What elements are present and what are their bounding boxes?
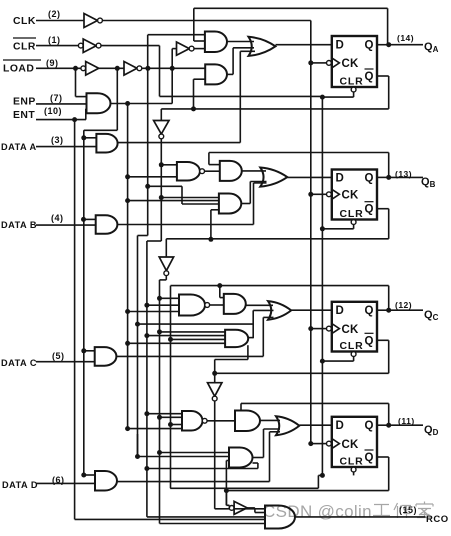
wire QA to AND B2 bbox=[161, 197, 219, 199]
NAND D output bubble bbox=[202, 418, 207, 423]
node LOAD junction bbox=[73, 66, 78, 71]
flip-flop U4 CK bubble bbox=[327, 441, 332, 446]
wire QC drop to AND C1 bbox=[220, 286, 224, 298]
wire QA to NAND C bbox=[147, 304, 179, 306]
wire CK tap U3 bbox=[311, 328, 327, 330]
node QB tap NAND D bbox=[157, 415, 162, 420]
wire AND D1 out bbox=[260, 419, 280, 421]
node QC junction bbox=[386, 308, 391, 313]
svg-text:(4): (4) bbox=[51, 213, 64, 223]
node load-true junction bbox=[115, 66, 120, 71]
svg-text:Q: Q bbox=[365, 172, 374, 184]
svg-text:Q: Q bbox=[365, 335, 374, 347]
svg-text:Q: Q bbox=[365, 71, 374, 83]
wire QA jog to AND D2 bbox=[147, 463, 258, 469]
flip-flop U1 Qbar label bbox=[365, 69, 374, 83]
node CLR junction U3 bbox=[320, 359, 325, 364]
flip-flop U3 CK label bbox=[342, 324, 360, 336]
node T tap AND C2 bbox=[125, 341, 130, 346]
wire QA-bar to AND A2 bbox=[194, 79, 206, 109]
wire CLR tap U4 bbox=[353, 472, 355, 475]
flip-flop U4 CLR label bbox=[340, 456, 364, 468]
wire OR C out to D3 bbox=[291, 309, 332, 311]
wire QB bus bbox=[160, 276, 266, 524]
node pin label (14) bbox=[397, 33, 414, 43]
wire QbarA out bbox=[377, 75, 389, 77]
wire QB-bar jog to inverter bbox=[165, 239, 167, 257]
AND gate T enable bbox=[87, 93, 111, 113]
wire CLR tap U1 bbox=[322, 92, 353, 97]
svg-text:(1): (1) bbox=[48, 35, 61, 45]
flip-flop U2 CK wedge bbox=[332, 189, 340, 199]
node CLR junction U1 bbox=[320, 95, 325, 100]
svg-text:RCO: RCO bbox=[426, 514, 449, 525]
wire DATA A pin bbox=[36, 146, 96, 148]
wire OR D out to D4 bbox=[299, 424, 332, 426]
flip-flop U1 CK bubble bbox=[327, 61, 332, 66]
svg-text:DATA D: DATA D bbox=[2, 480, 38, 490]
wire load-n riser to inverter A bbox=[171, 49, 173, 104]
node QA tap NAND D bbox=[144, 411, 149, 416]
wire CLK to CK bus bbox=[102, 20, 310, 22]
flip-flop U3 Q label bbox=[365, 305, 374, 317]
flip-flop U1 Q label bbox=[365, 40, 374, 52]
wire DATA B pin bbox=[36, 224, 96, 226]
svg-text:CLR: CLR bbox=[340, 208, 364, 220]
svg-text:DATA B: DATA B bbox=[1, 220, 37, 230]
wire QA to NAND B bbox=[161, 164, 177, 166]
node CK junction U1 bbox=[308, 60, 313, 65]
svg-text:CK: CK bbox=[342, 439, 360, 451]
inverter QA down bbox=[154, 121, 169, 135]
wire load-n jog to AND B2 bbox=[148, 186, 219, 204]
OR gate A bbox=[249, 37, 276, 56]
wire QB-bar riser to AND B2 bbox=[211, 210, 219, 240]
wire load-n bus bbox=[138, 35, 148, 457]
wire QC-bar line bbox=[215, 340, 389, 373]
flip-flop U1 CLR bubble bbox=[351, 87, 356, 92]
node pin label (13) bbox=[395, 169, 412, 179]
svg-text:CK: CK bbox=[342, 190, 360, 202]
node QB junction bbox=[386, 175, 391, 180]
svg-text:CLR: CLR bbox=[340, 76, 364, 88]
node data-enable tap A bbox=[81, 135, 86, 140]
svg-text:CK: CK bbox=[342, 324, 360, 336]
wire CLR tap U3 bbox=[322, 357, 353, 362]
node ENT junction bbox=[72, 117, 77, 122]
flip-flop U2 CK label bbox=[342, 190, 360, 202]
inverter CLR input bubble bbox=[78, 43, 83, 48]
wire CK tap U1 bbox=[311, 62, 327, 64]
wire data-enable to gate B bbox=[84, 218, 96, 220]
node QD-bar tap riser bbox=[224, 488, 229, 493]
inverter LOAD second bbox=[124, 62, 137, 76]
flip-flop U3 CLR label bbox=[340, 340, 364, 352]
node QA tap AND B2 bbox=[159, 195, 164, 200]
inverter QC down bubble bbox=[212, 396, 217, 401]
wire QD-bar riser bbox=[225, 461, 227, 506]
wire QA-bar line bbox=[161, 76, 388, 109]
node QA tap NAND B bbox=[159, 162, 164, 167]
flip-flop U3 D label bbox=[336, 305, 345, 317]
wire ENT bus bbox=[75, 120, 265, 520]
svg-text:D: D bbox=[336, 305, 345, 317]
flip-flop U3 CK bubble bbox=[327, 326, 332, 331]
flip-flop U2 box bbox=[332, 170, 377, 220]
AND gate RCO bbox=[265, 506, 295, 529]
svg-text:D: D bbox=[336, 172, 345, 184]
node QA tap AND C2 bbox=[144, 333, 149, 338]
wire T to NAND B bbox=[128, 176, 177, 178]
wire QA rail drop bbox=[194, 8, 205, 41]
svg-text:LOAD: LOAD bbox=[3, 64, 34, 75]
flip-flop U3 CK wedge bbox=[332, 324, 340, 334]
svg-text:(13): (13) bbox=[395, 169, 412, 179]
node QB tap AND C2 bbox=[157, 329, 162, 334]
wire T to AND B2 bbox=[128, 200, 219, 202]
inverter A output bubble bbox=[189, 46, 194, 51]
wire QB to pin bbox=[392, 176, 423, 178]
node QA tap NAND C bbox=[144, 303, 149, 308]
svg-text:(5): (5) bbox=[52, 351, 65, 361]
wire OR B out to D2 bbox=[287, 176, 332, 178]
wire ENT up into enable AND bbox=[86, 109, 87, 120]
wire AND A2 out jog bbox=[227, 48, 254, 75]
node DATA D label bbox=[2, 475, 65, 490]
wire QD feedback line bbox=[241, 403, 389, 425]
wire QD drop to AND D1 bbox=[241, 403, 242, 414]
node T junction bbox=[125, 101, 130, 106]
AND gate A2 bbox=[205, 64, 227, 84]
wire QC to AND C2 bbox=[171, 338, 226, 340]
wire CK tap U4 bbox=[311, 443, 327, 445]
svg-text:(3): (3) bbox=[51, 135, 64, 145]
wire T to NAND C bbox=[128, 311, 179, 313]
wire QC bus bbox=[215, 401, 266, 509]
NAND gate D bbox=[182, 411, 203, 431]
wire NAND D out bbox=[207, 420, 235, 422]
wire T to NAND D bbox=[128, 428, 182, 430]
wire QA to NAND D bbox=[147, 413, 182, 415]
inverter A bbox=[172, 42, 189, 55]
wire CK bus bbox=[310, 21, 312, 444]
inverter CLR bbox=[83, 39, 96, 53]
svg-text:Q: Q bbox=[365, 420, 374, 432]
node T tap NAND B bbox=[125, 174, 130, 179]
wire CLR bus bbox=[321, 96, 323, 475]
svg-text:CLR: CLR bbox=[13, 42, 36, 53]
AND gate C2 bbox=[225, 330, 248, 347]
node data-enable tap C bbox=[81, 348, 86, 353]
wire T bus bbox=[127, 104, 129, 429]
node QA label bbox=[424, 41, 439, 54]
node QA-bar junction bbox=[191, 106, 196, 111]
wire QC output bbox=[377, 309, 392, 311]
wire QA to AND C2 bbox=[147, 335, 225, 337]
wire CLK pin bbox=[36, 20, 84, 22]
wire data B out riser bbox=[117, 183, 266, 225]
wire QbarC out bbox=[377, 339, 389, 341]
node pin label (12) bbox=[395, 300, 412, 310]
svg-text:(2): (2) bbox=[48, 9, 61, 19]
node CK junction U2 bbox=[308, 192, 313, 197]
wire data D out riser bbox=[117, 432, 280, 482]
svg-text:CK: CK bbox=[342, 58, 360, 70]
node CLR input label bbox=[13, 35, 61, 53]
flip-flop U4 CK label bbox=[342, 439, 360, 451]
node QD label bbox=[424, 424, 439, 437]
node QC label bbox=[424, 309, 439, 322]
node load-n tap B bbox=[145, 184, 150, 189]
flip-flop U1 box bbox=[332, 36, 377, 87]
wire load-n line bbox=[142, 67, 205, 69]
flip-flop U2 D label bbox=[336, 172, 345, 184]
wire CLR tap U2 bbox=[322, 225, 353, 229]
node QA junction bbox=[386, 42, 391, 47]
wire DATA D pin bbox=[36, 482, 95, 484]
wire load-n to gate A1 bbox=[148, 34, 205, 36]
svg-text:Q: Q bbox=[365, 40, 374, 52]
svg-text:(10): (10) bbox=[44, 106, 62, 116]
wire data-enable to gate C bbox=[84, 350, 95, 352]
node CLR junction U2 bbox=[320, 226, 325, 231]
node QB tap NAND C bbox=[157, 296, 162, 301]
wire QB drop to AND B1 bbox=[209, 153, 220, 165]
wire T output bbox=[111, 103, 173, 105]
inverter LOAD second output bubble bbox=[137, 66, 142, 71]
wire QB to NAND C bbox=[160, 297, 180, 299]
svg-text:Q: Q bbox=[365, 204, 374, 216]
wire ENP pin bbox=[36, 103, 87, 105]
wire QD to pin bbox=[392, 424, 423, 426]
svg-text:(7): (7) bbox=[50, 93, 63, 103]
wire QC into NAND D bbox=[171, 424, 183, 426]
wire QA top rail bbox=[194, 8, 388, 44]
node ENP input label bbox=[13, 93, 63, 108]
flip-flop U2 CLR label bbox=[340, 208, 364, 220]
wire CLR to clear bus bbox=[101, 46, 322, 97]
node CK junction U4 bbox=[308, 441, 313, 446]
svg-text:ENT: ENT bbox=[13, 110, 35, 121]
wire QA output bbox=[377, 44, 392, 46]
flip-flop U4 box bbox=[332, 417, 377, 467]
wire QB-bar line bbox=[166, 209, 388, 239]
inverter CLK output bubble bbox=[98, 18, 103, 23]
AND gate data C bbox=[95, 347, 117, 366]
svg-text:Q: Q bbox=[365, 305, 374, 317]
wire CLR pin bbox=[36, 45, 79, 47]
wire AND D2 out jog bbox=[253, 429, 281, 458]
wire DATA C pin bbox=[36, 361, 95, 363]
buffer RCO input bubble bbox=[229, 506, 234, 511]
flip-flop U1 CLR label bbox=[340, 76, 364, 88]
OR gate D bbox=[276, 416, 299, 435]
AND gate data A bbox=[96, 134, 117, 153]
wire QD-bar line bbox=[226, 457, 388, 491]
wire QA-bar jog down bbox=[160, 109, 162, 121]
wire QD-bar riser top bbox=[226, 460, 229, 462]
wire NAND C out bbox=[210, 304, 224, 306]
node DATA B label bbox=[1, 213, 64, 230]
node bus2 tap AND D2 bbox=[135, 454, 140, 459]
inverter CLR output bubble bbox=[96, 43, 101, 48]
AND gate data D bbox=[95, 471, 117, 491]
node T tap NAND C bbox=[125, 309, 130, 314]
wire data C out riser bbox=[116, 317, 273, 356]
flip-flop U2 Q label bbox=[365, 172, 374, 184]
node load-n junction A bbox=[145, 66, 150, 71]
wire inverter A to AND A1 bbox=[194, 48, 205, 50]
flip-flop U4 D label bbox=[336, 420, 345, 432]
buffer LOAD bbox=[86, 62, 99, 76]
svg-text:D: D bbox=[336, 420, 345, 432]
node pin label (11) bbox=[398, 416, 415, 426]
flip-flop U4 Qbar label bbox=[365, 450, 374, 464]
svg-text:Q: Q bbox=[365, 452, 374, 464]
buffer RCO bbox=[234, 501, 247, 514]
svg-text:DATA C: DATA C bbox=[1, 358, 37, 368]
wire QA to pin bbox=[392, 44, 423, 46]
wire QB output bbox=[377, 176, 392, 178]
flip-flop U1 CK wedge bbox=[332, 58, 340, 68]
flip-flop U1 D label bbox=[336, 40, 345, 52]
wire QC-bar jog to inverter bbox=[214, 373, 216, 382]
wire LOAD buffer out bbox=[99, 67, 124, 69]
wire LOAD pin bbox=[36, 67, 81, 69]
flip-flop U2 CK bubble bbox=[327, 192, 332, 197]
AND gate D1 bbox=[235, 411, 260, 432]
wire QD output bbox=[377, 424, 392, 426]
svg-text:CLK: CLK bbox=[13, 16, 36, 27]
wire AND B2 out jog bbox=[241, 182, 266, 204]
wire AND C2 out jog bbox=[248, 310, 273, 338]
watermark text bbox=[263, 502, 372, 521]
wire RCO buffer out jog bbox=[247, 508, 265, 513]
wire CK tap U2 bbox=[311, 193, 327, 195]
node T tap NAND D bbox=[125, 426, 130, 431]
svg-text:CLR: CLR bbox=[340, 456, 364, 468]
node QD junction bbox=[386, 423, 391, 428]
node RCO pin label bbox=[399, 505, 417, 515]
node QB label bbox=[421, 176, 436, 189]
svg-text:DATA A: DATA A bbox=[1, 142, 37, 152]
svg-text:(9): (9) bbox=[46, 58, 59, 68]
node QB tap AND D2 bbox=[157, 450, 162, 455]
wire QC feedback line bbox=[171, 286, 389, 310]
node bus2 tap AND C2 bbox=[135, 322, 140, 327]
wire AND B1 out bbox=[242, 170, 266, 172]
buffer LOAD input bubble bbox=[81, 66, 86, 71]
wire QB to AND C2 bbox=[160, 331, 226, 333]
flip-flop U4 Q label bbox=[365, 420, 374, 432]
node QC junction drop bbox=[217, 283, 222, 288]
node DATA C label bbox=[1, 351, 65, 368]
NAND gate C bbox=[179, 295, 205, 316]
svg-text:D: D bbox=[336, 40, 345, 52]
wire QbarB out bbox=[377, 208, 389, 210]
node RCO label bbox=[426, 514, 449, 525]
wire QB to AND D2 bbox=[160, 452, 230, 454]
wire data-enable to gate A bbox=[84, 137, 97, 139]
inverter QB down bubble bbox=[164, 271, 169, 276]
node QC tap AND C2 bbox=[168, 337, 173, 342]
node CLK input label bbox=[13, 9, 61, 27]
node T tap AND B2 bbox=[125, 198, 130, 203]
wire RCO output bbox=[295, 516, 426, 518]
svg-text:(14): (14) bbox=[397, 33, 414, 43]
wire data-enable bus bbox=[83, 130, 85, 475]
AND gate B1 bbox=[220, 161, 242, 181]
wire QB to NAND D bbox=[160, 416, 183, 418]
node CLR junction U4 bbox=[320, 473, 325, 478]
wire AND C1 out bbox=[246, 304, 273, 306]
wire CLR bottom jog bbox=[170, 475, 322, 488]
wire bus2 to AND D2 bbox=[138, 434, 230, 457]
wire OR A out to D1 bbox=[276, 44, 332, 46]
inverter QB down bbox=[159, 257, 173, 271]
node DATA A label bbox=[1, 135, 64, 152]
node LOAD input label bbox=[3, 58, 59, 75]
svg-text:(11): (11) bbox=[398, 416, 415, 426]
node QC nand-d tap bbox=[168, 422, 173, 427]
wire RCO buffer in bbox=[226, 491, 229, 508]
wire load-true drop bbox=[84, 68, 118, 130]
wire QC distribution bbox=[170, 286, 172, 489]
wire bus2 row C bbox=[138, 323, 254, 325]
watermark hanzi bbox=[373, 502, 433, 519]
wire data-enable to gate D bbox=[84, 474, 95, 476]
NAND C output bubble bbox=[205, 303, 210, 308]
node QB-bar tap riser bbox=[208, 237, 213, 242]
wire LOAD to enable AND bbox=[76, 68, 87, 96]
NAND gate B bbox=[177, 162, 200, 181]
svg-text:ENP: ENP bbox=[13, 97, 36, 108]
node load-n junction B bbox=[170, 66, 175, 71]
inverter QC down bbox=[208, 383, 222, 397]
wire T to AND C2 bbox=[128, 342, 226, 344]
AND gate B2 bbox=[219, 194, 241, 214]
flip-flop U1 CK label bbox=[342, 58, 360, 70]
OR gate C bbox=[268, 301, 291, 320]
wire QB feedback line bbox=[209, 153, 389, 177]
node data-enable tap D bbox=[81, 473, 86, 478]
flip-flop U4 CK wedge bbox=[332, 439, 340, 449]
AND gate A1 bbox=[205, 32, 227, 53]
svg-text:CLR: CLR bbox=[340, 340, 364, 352]
wire QC-bar riser to AND C2 bbox=[215, 345, 248, 373]
node data-enable tap B bbox=[81, 217, 86, 222]
wire AND A1 out bbox=[227, 41, 254, 43]
wire QbarD out bbox=[377, 456, 389, 458]
AND gate D2 bbox=[229, 448, 252, 468]
svg-text:(15): (15) bbox=[399, 505, 417, 515]
wire data A out riser bbox=[118, 51, 255, 142]
node QA tap AND D2jog bbox=[144, 466, 149, 471]
OR gate B bbox=[260, 168, 287, 187]
flip-flop U3 Qbar label bbox=[365, 333, 374, 347]
flip-flop U3 CLR bubble bbox=[351, 352, 356, 357]
inverter QA down bubble bbox=[159, 134, 164, 139]
wire QA bus bbox=[147, 139, 265, 517]
wire QC to pin bbox=[392, 309, 423, 311]
inverter CLK bbox=[84, 14, 98, 28]
NAND B output bubble bbox=[200, 169, 205, 174]
flip-flop U3 box bbox=[332, 302, 377, 352]
svg-text:(12): (12) bbox=[395, 300, 412, 310]
wire NAND B out bbox=[204, 170, 219, 172]
flip-flop U4 CLR bubble bbox=[351, 467, 356, 472]
flip-flop U2 CLR bubble bbox=[351, 220, 356, 225]
